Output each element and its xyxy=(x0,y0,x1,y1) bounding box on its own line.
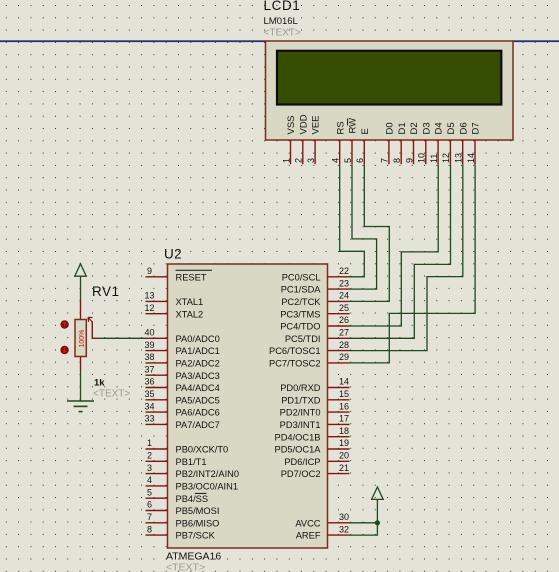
svg-text:PB7/SCK: PB7/SCK xyxy=(176,531,216,541)
svg-text:25: 25 xyxy=(339,303,349,313)
svg-text:8: 8 xyxy=(392,158,402,163)
svg-text:D6: D6 xyxy=(458,122,469,134)
sheet border line xyxy=(0,40,266,42)
LCD LCD1 body xyxy=(266,41,514,140)
U2 pin 37 stub (PA3/ADC3) xyxy=(146,374,168,376)
svg-text:34: 34 xyxy=(144,401,154,411)
svg-text:19: 19 xyxy=(339,438,349,448)
svg-text:3: 3 xyxy=(147,463,152,473)
svg-text:30: 30 xyxy=(339,512,349,522)
U2 pin 34 stub (PA6/ADC6) xyxy=(146,411,168,413)
svg-text:RV1: RV1 xyxy=(92,284,120,299)
svg-text:PC1/SDA: PC1/SDA xyxy=(281,285,322,295)
svg-text:24: 24 xyxy=(339,291,349,301)
svg-text:PC4/TDO: PC4/TDO xyxy=(280,322,320,332)
svg-text:PD4/OC1B: PD4/OC1B xyxy=(275,432,321,442)
svg-text:RESET: RESET xyxy=(176,272,207,282)
svg-text:14: 14 xyxy=(339,377,349,387)
LCD screen xyxy=(277,51,501,105)
U2 pin 40 stub (PA0/ADC0) xyxy=(146,337,168,339)
svg-text:PA1/ADC1: PA1/ADC1 xyxy=(176,346,220,356)
LCD pin 12 stub xyxy=(449,140,451,164)
LCD pin 5 stub xyxy=(351,140,353,164)
svg-text:38: 38 xyxy=(144,352,154,362)
svg-text:PA3/ADC3: PA3/ADC3 xyxy=(176,371,220,381)
svg-text:RS: RS xyxy=(335,121,346,134)
U2 pin 19 stub (PD5/OC1A) xyxy=(328,448,350,450)
wire LCD E pin6 to PC2 pin24 xyxy=(350,164,390,301)
svg-text:PD1/TXD: PD1/TXD xyxy=(281,395,321,405)
svg-text:1k: 1k xyxy=(94,378,105,389)
svg-text:18: 18 xyxy=(339,426,349,436)
svg-text:LCD1: LCD1 xyxy=(264,0,301,13)
U2 pin 16 stub (PD2/INT0) xyxy=(328,411,350,413)
U2 pin 12 stub (XTAL2) xyxy=(146,313,168,315)
svg-text:PD6/ICP: PD6/ICP xyxy=(284,457,320,467)
svg-text:35: 35 xyxy=(144,389,154,399)
svg-text:D1: D1 xyxy=(397,122,408,134)
svg-text:21: 21 xyxy=(339,463,349,473)
svg-text:PD3/INT1: PD3/INT1 xyxy=(280,420,321,430)
svg-text:PC5/TDI: PC5/TDI xyxy=(285,334,321,344)
RV1 adjust knob up xyxy=(60,320,68,328)
svg-text:17: 17 xyxy=(339,414,349,424)
svg-text:PD5/OC1A: PD5/OC1A xyxy=(275,445,322,455)
svg-text:PB5/MOSI: PB5/MOSI xyxy=(176,506,220,516)
U2 pin 33 stub (PA7/ADC7) xyxy=(146,423,168,425)
power VCC arrow (AVCC) xyxy=(372,487,384,499)
svg-text:33: 33 xyxy=(144,414,154,424)
svg-text:PC7/TOSC2: PC7/TOSC2 xyxy=(269,359,321,369)
LCD pin 10 stub xyxy=(425,140,427,164)
svg-text:12: 12 xyxy=(144,303,154,313)
U2 pin 38 stub (PA2/ADC2) xyxy=(146,362,168,364)
svg-text:7: 7 xyxy=(147,512,152,522)
U2 pin 7 stub (PB6/MISO) xyxy=(146,522,168,524)
svg-text:22: 22 xyxy=(339,266,349,276)
IC U2 ATMEGA16 body xyxy=(168,264,328,548)
svg-text:PA7/ADC7: PA7/ADC7 xyxy=(176,420,220,430)
power VCC arrow (RV1 top) xyxy=(75,264,87,276)
wire VCC to AVCC/AREF xyxy=(350,499,378,535)
svg-text:2: 2 xyxy=(147,451,152,461)
svg-text:9: 9 xyxy=(147,266,152,276)
LCD pin 8 stub xyxy=(400,140,402,164)
svg-text:PB2/INT2/AIN0: PB2/INT2/AIN0 xyxy=(176,469,240,479)
LCD pin 1 stub xyxy=(290,140,292,164)
svg-text:PD2/INT0: PD2/INT0 xyxy=(280,408,321,418)
svg-text:15: 15 xyxy=(339,389,349,399)
svg-text:PB3/OC0/AIN1: PB3/OC0/AIN1 xyxy=(176,482,239,492)
svg-text:40: 40 xyxy=(144,328,154,338)
svg-text:PA4/ADC4: PA4/ADC4 xyxy=(176,383,220,393)
svg-text:<TEXT>: <TEXT> xyxy=(93,389,130,400)
svg-text:1: 1 xyxy=(281,158,291,163)
U2 pin 35 stub (PA5/ADC5) xyxy=(146,399,168,401)
svg-text:D4: D4 xyxy=(434,122,445,134)
svg-text:8: 8 xyxy=(147,524,152,534)
svg-text:23: 23 xyxy=(339,278,349,288)
U2 pin 24 stub (PC2/TCK) xyxy=(328,300,350,302)
U2 pin 17 stub (PD3/INT1) xyxy=(328,423,350,425)
svg-text:LM016L: LM016L xyxy=(264,16,298,27)
svg-text:28: 28 xyxy=(339,340,349,350)
U2 pin 3 stub (PB2/INT2/AIN0) xyxy=(146,473,168,475)
svg-text:5: 5 xyxy=(343,158,353,163)
svg-text:6: 6 xyxy=(355,158,365,163)
RV1 wiper pin xyxy=(92,322,97,339)
potentiometer RV1 body xyxy=(75,320,86,357)
wire RV1 bottom to ground xyxy=(80,370,82,402)
svg-text:11: 11 xyxy=(429,154,439,163)
svg-text:13: 13 xyxy=(454,153,464,163)
svg-text:4: 4 xyxy=(331,158,341,163)
svg-text:29: 29 xyxy=(339,352,349,362)
svg-text:VEE: VEE xyxy=(311,115,322,134)
svg-text:3: 3 xyxy=(306,158,316,163)
U2 pin 2 stub (PB1/T1) xyxy=(146,460,168,462)
U2 pin 39 stub (PA1/ADC1) xyxy=(146,350,168,352)
svg-text:PA5/ADC5: PA5/ADC5 xyxy=(176,395,220,405)
svg-text:D0: D0 xyxy=(385,122,396,134)
wire LCD RS pin4 to PC0 pin22 xyxy=(340,164,365,277)
wire LCD RW pin5 to PC1 pin23 xyxy=(350,164,377,289)
svg-text:PC2/TCK: PC2/TCK xyxy=(281,297,321,307)
svg-text:39: 39 xyxy=(144,340,154,350)
U2 pin 32 stub (AREF) xyxy=(328,534,350,536)
svg-text:100%: 100% xyxy=(79,330,86,348)
svg-text:PA2/ADC2: PA2/ADC2 xyxy=(176,359,220,369)
wire LCD D6 pin13 to PC6 pin28 xyxy=(350,164,463,350)
U2 pin 22 stub (PC0/SCL) xyxy=(328,276,350,278)
svg-text:1: 1 xyxy=(147,438,152,448)
svg-text:12: 12 xyxy=(441,153,451,163)
wire AVCC pin30 xyxy=(350,522,378,524)
U2 pin 9 stub (RESET) xyxy=(146,276,168,278)
svg-text:4: 4 xyxy=(147,475,152,485)
junction AVCC node xyxy=(375,520,380,525)
LCD pin 4 stub xyxy=(339,140,341,164)
svg-text:PB0/XCK/T0: PB0/XCK/T0 xyxy=(176,445,229,455)
svg-text:RW: RW xyxy=(348,118,359,134)
svg-text:9: 9 xyxy=(404,158,414,163)
U2 pin 25 stub (PC3/TMS) xyxy=(328,313,350,315)
svg-text:AVCC: AVCC xyxy=(295,518,320,528)
svg-text:26: 26 xyxy=(339,315,349,325)
svg-text:2: 2 xyxy=(294,158,304,163)
U2 pin 30 stub (AVCC) xyxy=(328,522,350,524)
U2 pin 15 stub (PD1/TXD) xyxy=(328,399,350,401)
wire LCD D5 pin12 to PC5 pin27 xyxy=(350,164,451,338)
svg-text:PB4/SS: PB4/SS xyxy=(176,494,209,504)
svg-text:27: 27 xyxy=(339,328,349,338)
LCD pin 11 stub xyxy=(437,140,439,164)
LCD pin 14 stub xyxy=(474,140,476,164)
svg-text:PB1/T1: PB1/T1 xyxy=(176,457,207,467)
svg-text:37: 37 xyxy=(144,364,154,374)
svg-text:PD7/OC2: PD7/OC2 xyxy=(281,469,321,479)
LCD pin 6 stub xyxy=(363,140,365,164)
LCD pin 3 stub xyxy=(314,140,316,164)
wire LCD D7 pin14 to PC7 pin29 xyxy=(350,164,476,363)
U2 pin 26 stub (PC4/TDO) xyxy=(328,325,350,327)
svg-text:5: 5 xyxy=(147,487,152,497)
U2 pin 18 stub (PD4/OC1B) xyxy=(328,436,350,438)
U2 pin 1 stub (PB0/XCK/T0) xyxy=(146,448,168,450)
svg-text:D3: D3 xyxy=(421,122,432,134)
U2 pin 29 stub (PC7/TOSC2) xyxy=(328,362,350,364)
svg-text:XTAL1: XTAL1 xyxy=(176,297,204,307)
svg-text:7: 7 xyxy=(380,158,390,163)
svg-text:PB6/MISO: PB6/MISO xyxy=(176,518,220,528)
wire LCD D4 pin11 to PC4 pin26 xyxy=(350,164,439,326)
U2 pin 21 stub (PD7/OC2) xyxy=(328,473,350,475)
U2 pin 6 stub (PB5/MOSI) xyxy=(146,510,168,512)
svg-text:D7: D7 xyxy=(471,122,482,134)
svg-text:36: 36 xyxy=(144,377,154,387)
wire VCC to RV1 top xyxy=(80,276,82,299)
U2 pin 28 stub (PC6/TOSC1) xyxy=(328,350,350,352)
svg-text:D5: D5 xyxy=(446,122,457,134)
U2 pin 23 stub (PC1/SDA) xyxy=(328,288,350,290)
svg-text:20: 20 xyxy=(339,451,349,461)
svg-text:<TEXT>: <TEXT> xyxy=(166,562,205,572)
U2 pin 8 stub (PB7/SCK) xyxy=(146,534,168,536)
svg-text:PC0/SCL: PC0/SCL xyxy=(282,272,321,282)
svg-text:16: 16 xyxy=(339,401,349,411)
svg-text:PD0/RXD: PD0/RXD xyxy=(280,383,321,393)
svg-text:U2: U2 xyxy=(164,247,182,262)
LCD pin 13 stub xyxy=(462,140,464,164)
ground symbol xyxy=(67,401,94,412)
LCD pin 9 stub xyxy=(413,140,415,164)
U2 pin 4 stub (PB3/OC0/AIN1) xyxy=(146,485,168,487)
svg-text:VDD: VDD xyxy=(298,114,309,134)
RV1 adjust knob down xyxy=(60,346,68,354)
svg-text:PA0/ADC0: PA0/ADC0 xyxy=(176,334,220,344)
svg-text:14: 14 xyxy=(466,153,476,163)
svg-text:PC3/TMS: PC3/TMS xyxy=(280,309,320,319)
RV1 wiper arrow xyxy=(88,317,93,322)
svg-text:VSS: VSS xyxy=(286,115,297,134)
svg-text:XTAL2: XTAL2 xyxy=(176,309,204,319)
U2 pin 14 stub (PD0/RXD) xyxy=(328,387,350,389)
svg-text:<TEXT>: <TEXT> xyxy=(264,28,301,39)
svg-text:10: 10 xyxy=(417,153,427,163)
svg-text:PA6/ADC6: PA6/ADC6 xyxy=(176,408,220,418)
svg-text:PC6/TOSC1: PC6/TOSC1 xyxy=(269,346,321,356)
svg-text:AREF: AREF xyxy=(296,531,321,541)
svg-text:13: 13 xyxy=(144,291,154,301)
potentiometer RV1 bottom pin stub xyxy=(80,357,82,370)
U2 pin 20 stub (PD6/ICP) xyxy=(328,460,350,462)
U2 pin 27 stub (PC5/TDI) xyxy=(328,337,350,339)
svg-text:32: 32 xyxy=(339,524,349,534)
U2 pin 13 stub (XTAL1) xyxy=(146,300,168,302)
svg-text:6: 6 xyxy=(147,500,152,510)
potentiometer RV1 top pin stub xyxy=(80,299,82,320)
LCD pin 7 stub xyxy=(388,140,390,164)
U2 pin 36 stub (PA4/ADC4) xyxy=(146,387,168,389)
svg-text:D2: D2 xyxy=(409,122,420,134)
svg-text:E: E xyxy=(360,128,371,134)
U2 pin 5 stub (PB4/SS) xyxy=(146,497,168,499)
wire RV1 wiper to PA0 pin40 xyxy=(98,337,146,339)
LCD pin 2 stub xyxy=(302,140,304,164)
